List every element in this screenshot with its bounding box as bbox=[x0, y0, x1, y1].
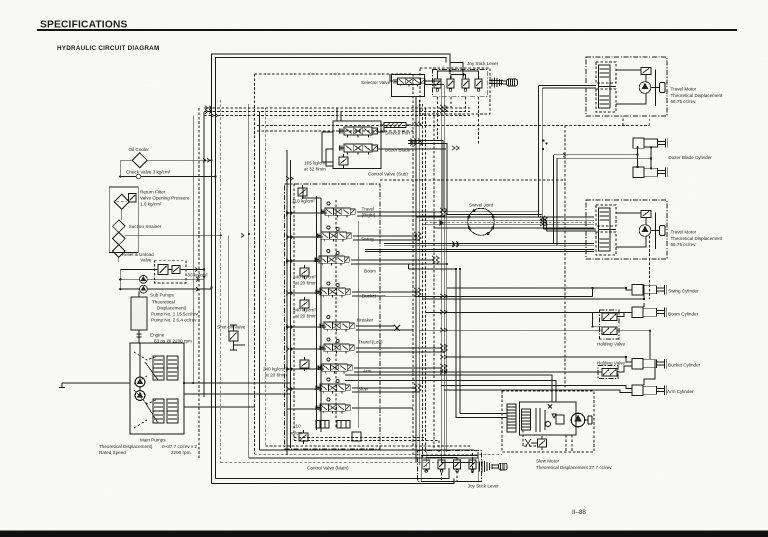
spool: travel right bbox=[321, 208, 355, 217]
svg-text:Theoretical Displacement: Theoretical Displacement bbox=[671, 93, 724, 98]
svg-text:Joy Stick Lever: Joy Stick Lever bbox=[468, 484, 500, 489]
junction dots right area bbox=[455, 140, 651, 359]
svg-text:210: 210 bbox=[293, 424, 301, 429]
svg-text:Swivel Joint: Swivel Joint bbox=[469, 203, 494, 208]
spool: service port bbox=[340, 127, 378, 138]
wire: breaker x mark bbox=[394, 325, 400, 331]
wire: left drop bbox=[119, 160, 121, 176]
spool: swing bbox=[317, 232, 351, 241]
relief 165kg bbox=[339, 154, 348, 168]
wire: gallery vertical A bbox=[316, 196, 318, 430]
pump servo piston 2b bbox=[167, 399, 178, 423]
relief 240 a bbox=[300, 265, 309, 279]
wire: top frame into selector bbox=[450, 63, 463, 79]
spool: breaker bbox=[320, 322, 354, 331]
oil cooler bbox=[132, 153, 147, 168]
svg-text:kg/cm²: kg/cm² bbox=[290, 431, 304, 436]
joystick handle bbox=[438, 71, 479, 79]
relief 240 c bbox=[300, 357, 309, 371]
svg-text:Theoretical Displacement: Theoretical Displacement bbox=[671, 236, 724, 241]
swash linkage dashed bbox=[134, 352, 158, 428]
main pumps box bbox=[130, 343, 184, 434]
wire: boom cylinder lines bbox=[426, 303, 644, 327]
wire: pump shaft bbox=[139, 343, 141, 391]
joystick reducing valve 1 bbox=[423, 457, 430, 472]
flow chevrons bbox=[410, 139, 566, 157]
wire: check valve line bbox=[120, 176, 215, 178]
valve block end fitting A bbox=[316, 421, 329, 429]
svg-text:Breaker: Breaker bbox=[357, 318, 374, 323]
slew control spool bbox=[522, 409, 531, 430]
slew motor circle bbox=[571, 413, 585, 427]
svg-text:Main Pumps: Main Pumps bbox=[140, 438, 166, 443]
spool: bucket bbox=[316, 288, 350, 297]
dashed pilot box around joystick bbox=[420, 68, 490, 114]
suction strainer diamond 3 bbox=[113, 245, 126, 258]
pilot check valves bbox=[327, 202, 339, 401]
pump servo piston 2a bbox=[153, 399, 164, 423]
svg-text:66.75 cc/rev.: 66.75 cc/rev. bbox=[671, 99, 697, 104]
wire: bus x416 bbox=[415, 97, 417, 462]
svg-text:Theoretical Displacement 27.7: Theoretical Displacement 27.7 cc/rev. bbox=[536, 465, 613, 470]
wire: bus x447 bbox=[446, 149, 448, 452]
svg-text:Dozer Blade: Dozer Blade bbox=[385, 148, 411, 153]
svg-text:240 kg/cm²: 240 kg/cm² bbox=[293, 275, 316, 280]
wire: bus x441 bbox=[440, 81, 442, 460]
svg-text:165 kg/cm²: 165 kg/cm² bbox=[304, 161, 327, 166]
svg-text:Slew Motor: Slew Motor bbox=[536, 459, 559, 464]
wire: bus x221 dashed bbox=[220, 100, 222, 463]
svg-text:Boom Cylinder: Boom Cylinder bbox=[668, 312, 699, 317]
wire: arm lines bbox=[441, 360, 655, 393]
svg-text:Rated Speed: Rated Speed bbox=[99, 450, 126, 455]
junction dots left bus bbox=[183, 159, 222, 384]
wire: swivel dashed center bbox=[426, 222, 594, 224]
svg-text:Pump No. 2 6.4 cc/rev: Pump No. 2 6.4 cc/rev bbox=[151, 318, 197, 323]
svg-text:Engine: Engine bbox=[150, 333, 165, 338]
spool: selector valve bbox=[394, 78, 425, 87]
svg-text:Bucket Cylinder: Bucket Cylinder bbox=[668, 363, 701, 368]
wire: bus x444 bbox=[443, 85, 445, 456]
wire: valve inlet bus x290 bbox=[290, 160, 292, 448]
wire: holding valve 1 lines bbox=[419, 327, 650, 359]
svg-text:II–88: II–88 bbox=[572, 509, 586, 516]
svg-text:Displacement): Displacement) bbox=[157, 306, 187, 311]
wire: gallery vertical D bbox=[358, 221, 360, 428]
wire: outer frame top line bbox=[212, 54, 464, 484]
relief 210 bottom bbox=[299, 430, 308, 444]
svg-text:HYDRAULIC CIRCUIT DIAGRAM: HYDRAULIC CIRCUIT DIAGRAM bbox=[57, 45, 159, 52]
wire: lower bundle to travel motor 2 bbox=[365, 244, 594, 252]
joystick reducing valve 2 bbox=[438, 457, 445, 472]
joystick reducing valve 4 bbox=[475, 76, 482, 91]
wire: joystick pilot drops bbox=[438, 97, 479, 143]
wire: valve inlet bus x287 bbox=[286, 150, 288, 455]
wire: bus x425 dashed bbox=[425, 108, 427, 452]
return filter box bbox=[109, 187, 138, 253]
svg-text:Holding Valve: Holding Valve bbox=[597, 361, 625, 366]
wire: strainer line right bbox=[119, 235, 221, 262]
wire: top dashed box edge bbox=[255, 73, 413, 75]
svg-text:Boom: Boom bbox=[364, 269, 376, 274]
svg-text:Check Valve 3 kg/cm²: Check Valve 3 kg/cm² bbox=[126, 170, 171, 175]
valve block end fitting B bbox=[337, 421, 350, 429]
wire: bus x254 dashed bbox=[254, 74, 256, 454]
wire: gallery vertical B bbox=[303, 188, 321, 432]
wire: engine shaft bbox=[137, 330, 142, 343]
svg-text:Valve Opening Pressure: Valve Opening Pressure bbox=[140, 196, 190, 201]
svg-text:Dozer Blade Cylinder: Dozer Blade Cylinder bbox=[668, 155, 712, 160]
dash-dot box control valve main bbox=[285, 184, 381, 449]
service port coupler bbox=[380, 123, 411, 128]
svg-text:Theoretical Displacement): Theoretical Displacement) bbox=[99, 444, 153, 449]
holding valve 1 bbox=[600, 310, 620, 339]
wire: swing cylinder lines bbox=[419, 285, 644, 300]
wire: dozer lines bbox=[377, 148, 426, 150]
svg-text:Selector Valve: Selector Valve bbox=[361, 80, 391, 85]
check box bottom bbox=[352, 432, 361, 441]
svg-text:Travel: Travel bbox=[362, 207, 375, 212]
wire: pump outputs bbox=[62, 383, 290, 407]
spool: slew bbox=[316, 384, 350, 393]
svg-text:Control Valve (Main): Control Valve (Main) bbox=[307, 466, 349, 471]
svg-text:at 20 ℓ/min: at 20 ℓ/min bbox=[265, 373, 287, 378]
joystick reducing valve 1 bbox=[434, 76, 441, 91]
svg-text:240 kg/cm²: 240 kg/cm² bbox=[263, 367, 286, 372]
svg-text:Oil Cooler: Oil Cooler bbox=[129, 147, 150, 152]
wire: pilot to bottom joystick dashed bbox=[294, 438, 439, 453]
wire: slew feed lines bbox=[345, 269, 556, 418]
spool: boom bbox=[315, 256, 349, 265]
sub pump 2 bbox=[140, 285, 148, 293]
svg-text:Theoretical: Theoretical bbox=[152, 300, 175, 305]
svg-text:Relief & Unload: Relief & Unload bbox=[122, 252, 154, 257]
svg-text:Travel Motor: Travel Motor bbox=[671, 87, 697, 92]
wire: outer frame bottom bbox=[212, 479, 455, 484]
svg-text:(Right): (Right) bbox=[362, 213, 376, 218]
junction dots in valve area bbox=[203, 211, 448, 390]
main pump circle 1 bbox=[135, 377, 145, 387]
wire: oil cooler line bbox=[120, 159, 211, 161]
svg-text:Return Filter: Return Filter bbox=[140, 190, 166, 195]
svg-text:Travel (Left): Travel (Left) bbox=[358, 340, 383, 345]
return filter pilot box bbox=[129, 194, 137, 203]
svg-text:Joy Stick Lever: Joy Stick Lever bbox=[467, 61, 499, 66]
wire: pilot dashed y115.5 bbox=[204, 115, 470, 117]
wire: spool row stubs to bus bbox=[357, 212, 444, 216]
svg-text:Arm Cylinder: Arm Cylinder bbox=[667, 389, 694, 394]
wire: dozer feed verticals bbox=[638, 147, 652, 168]
wire: left feed stubs bbox=[287, 213, 327, 409]
spool: arm bbox=[318, 364, 352, 373]
wire: case drain left arrow bbox=[59, 383, 65, 388]
svg-text:SPECIFICATIONS: SPECIFICATIONS bbox=[40, 20, 128, 31]
suction strainer diamond 1 bbox=[113, 220, 126, 233]
svg-text:at 20 ℓ/min: at 20 ℓ/min bbox=[295, 314, 317, 319]
svg-text:at 20 ℓ/min: at 20 ℓ/min bbox=[295, 281, 317, 286]
wire: pump lines bbox=[120, 270, 211, 290]
wire: selector links bbox=[390, 74, 444, 85]
arm cylinder bbox=[632, 385, 666, 395]
joystick reducing valve 4 bbox=[469, 457, 476, 472]
spool: dozer blade bbox=[340, 144, 378, 155]
svg-text:Travel Motor: Travel Motor bbox=[671, 230, 697, 235]
wire: bus x259 bbox=[259, 112, 261, 450]
svg-text:Service Port: Service Port bbox=[385, 131, 411, 136]
svg-text:Sub Pumps: Sub Pumps bbox=[150, 293, 174, 298]
svg-text:Suction Strainer: Suction Strainer bbox=[129, 224, 162, 229]
wire: sub valve feeds bbox=[322, 108, 446, 166]
svg-text:240 kg/cm²: 240 kg/cm² bbox=[293, 308, 316, 313]
svg-text:at 32 ℓ/min: at 32 ℓ/min bbox=[304, 167, 326, 172]
wire: motor2 drain dashed bbox=[648, 236, 650, 299]
bucket cylinder bbox=[632, 359, 666, 369]
dozer blade cylinder 1 bbox=[633, 138, 667, 148]
wire: inner frame bottom bbox=[216, 468, 450, 479]
svg-text:210 kg/cm²: 210 kg/cm² bbox=[292, 199, 315, 204]
wire: gallery vertical C dashed bbox=[335, 200, 337, 428]
wire: long dashed pilot y125 bbox=[257, 116, 649, 391]
dozer blade cylinder 2 bbox=[633, 167, 667, 177]
wire: dashed pilot y131 bbox=[257, 130, 413, 132]
wire: valve bus x294 dashed bbox=[293, 184, 295, 440]
slew check valves bbox=[536, 408, 545, 432]
slew relief bottom bbox=[538, 436, 547, 450]
swing cylinder bbox=[632, 285, 666, 295]
swivel junction arrow bbox=[440, 220, 445, 227]
wire: bus x204 bbox=[203, 112, 205, 397]
selector valve enclosure bbox=[392, 75, 425, 97]
wire: nested bottom line 3 bbox=[249, 452, 478, 458]
wire: shutoff feed bbox=[228, 235, 233, 331]
svg-text:Arm: Arm bbox=[363, 369, 372, 374]
joystick handle bottom bbox=[426, 458, 472, 463]
svg-text:1.0 kg/cm²: 1.0 kg/cm² bbox=[140, 202, 162, 207]
wire: bus x413 dashed bbox=[412, 74, 414, 455]
return filter diamond bbox=[114, 194, 129, 209]
wire: bus x249 bbox=[248, 104, 250, 458]
svg-text:66.75 cc/rev.: 66.75 cc/rev. bbox=[671, 242, 697, 247]
bottom black bar bbox=[0, 531, 768, 537]
wire: bucket lines bbox=[447, 357, 632, 372]
svg-text:0~37.7 cc/rev x 2: 0~37.7 cc/rev x 2 bbox=[162, 444, 198, 449]
wire: bus x422 dashed bbox=[421, 104, 423, 458]
wire: joystick feed elbows bbox=[408, 141, 542, 215]
wire: travel motor2 inlet pair bbox=[544, 217, 597, 231]
swivel joint bbox=[468, 208, 495, 235]
check valve 3kg bbox=[136, 174, 141, 179]
wire: bus x419 bbox=[418, 100, 420, 465]
flow chevrons left bus bbox=[195, 106, 244, 291]
joystick reducing valve 3 bbox=[462, 76, 469, 91]
svg-text:Control Valve (Sub): Control Valve (Sub) bbox=[368, 172, 408, 177]
wire: travel motor1 feed bbox=[538, 86, 596, 221]
wire: pilot return double dashed top bbox=[204, 108, 470, 112]
wire: bus x434 dashed bbox=[433, 112, 435, 449]
header rule bbox=[37, 29, 737, 31]
svg-text:Slew: Slew bbox=[358, 387, 369, 392]
slew rotary joint column bbox=[507, 404, 516, 432]
engine block bbox=[131, 297, 147, 330]
wire: filter to strainers bbox=[121, 209, 123, 220]
wire: nested dashed bottom bbox=[221, 446, 502, 463]
relief 210 top bbox=[298, 185, 307, 199]
suction strainer diamond 2 bbox=[113, 232, 126, 245]
wire: nested bottom line 4 bbox=[260, 449, 475, 451]
joystick reducing valve 3 bbox=[454, 457, 461, 472]
pump servo piston 1b bbox=[167, 356, 178, 380]
wire: relief lines bbox=[120, 269, 204, 271]
spool: aux bbox=[316, 404, 350, 413]
svg-text:Swing: Swing bbox=[361, 237, 374, 242]
main pump circle 2 bbox=[135, 391, 145, 401]
pump servo piston 1a bbox=[153, 356, 164, 380]
wire: inner frame line bbox=[216, 58, 447, 479]
sub pump 1 bbox=[140, 275, 148, 283]
wire: slew box bottom drops bbox=[523, 430, 572, 452]
relief 240 b bbox=[300, 297, 309, 311]
wire: bus x265 dashed bbox=[264, 108, 266, 446]
boom cylinder bbox=[632, 307, 666, 317]
svg-text:2200 rpm.: 2200 rpm. bbox=[171, 450, 192, 455]
svg-text:Swing Cylinder: Swing Cylinder bbox=[668, 289, 699, 294]
wire: bus x193 bbox=[192, 116, 194, 384]
wire: bus x199 dashed bbox=[198, 108, 200, 460]
svg-text:Pump No. 1 15.5cc/rev: Pump No. 1 15.5cc/rev bbox=[151, 312, 198, 317]
wire: bottom joystick pilot drops bbox=[426, 451, 472, 482]
svg-text:Valve: Valve bbox=[140, 258, 152, 263]
joystick reducing valve 2 bbox=[447, 76, 454, 91]
wire: swivel bundle bbox=[416, 217, 594, 228]
spool: travel left bbox=[320, 344, 354, 353]
svg-text:Holding Valve: Holding Valve bbox=[597, 342, 625, 347]
swivel perimeter dots bbox=[467, 209, 494, 235]
